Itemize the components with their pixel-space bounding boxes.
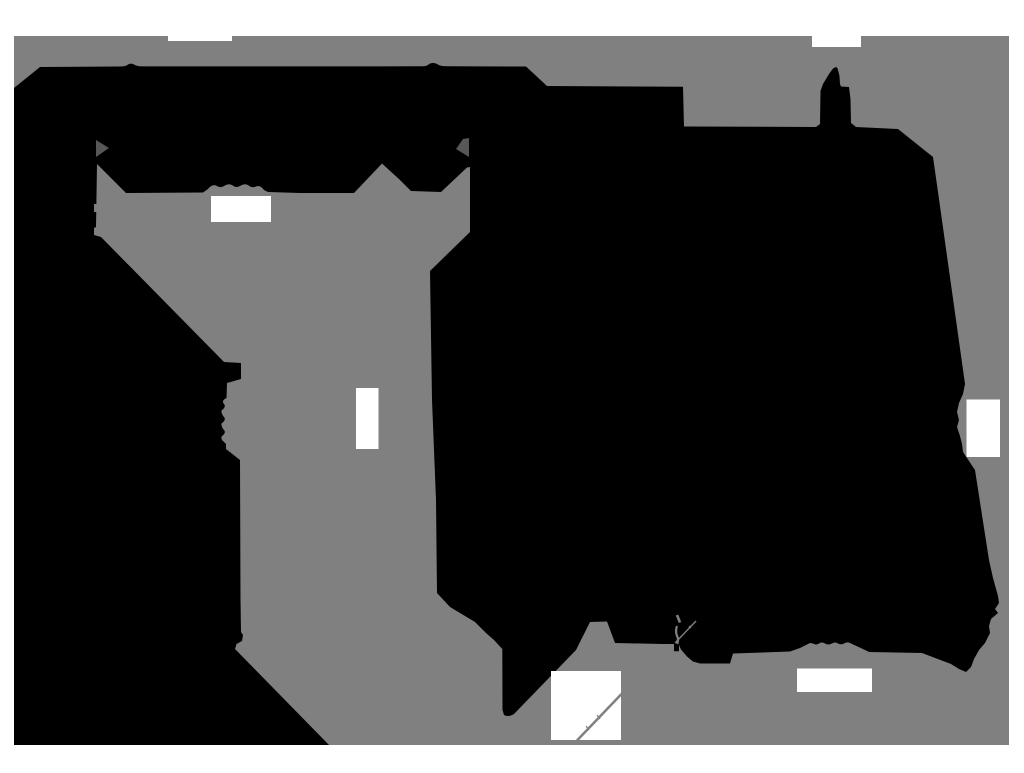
white notch top left — [168, 35, 232, 41]
gray diagonal line in bottom box — [577, 694, 622, 741]
white notch top right — [812, 35, 861, 47]
white label box bottom right — [797, 669, 872, 693]
dark gray triangle left — [96, 140, 109, 157]
white label box valley middle — [356, 388, 379, 449]
white label box right — [967, 400, 1001, 458]
white label box valley top — [211, 196, 271, 222]
white label box bottom left with diagonal — [551, 671, 621, 740]
dark gray triangle right — [456, 138, 469, 157]
twig gray strokes — [677, 615, 680, 623]
small gray notch left edge — [94, 204, 97, 212]
